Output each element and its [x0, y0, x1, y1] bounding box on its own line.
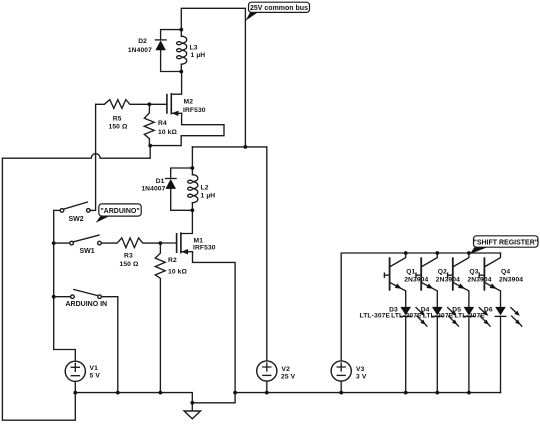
svg-text:R5: R5 — [113, 116, 122, 123]
junction R5/R4/M2 gate — [148, 102, 152, 106]
transistor Q1 2N3904 — [384, 253, 405, 307]
svg-text:2N3904: 2N3904 — [404, 276, 428, 283]
svg-text:IRF530: IRF530 — [193, 245, 216, 252]
svg-text:LTL-307E: LTL-307E — [423, 313, 454, 320]
svg-text:SW1: SW1 — [80, 248, 95, 255]
LED D4 LTL-307E — [432, 307, 459, 326]
wire V2 riser — [266, 147, 268, 361]
wire M2 drain from L3 bottom node — [171, 72, 181, 95]
wire D2 left branch bottom — [161, 50, 182, 71]
wire M1 drain from L2 bottom node — [181, 210, 193, 233]
wire D3 cathode to rail — [405, 316, 407, 392]
svg-text:R2: R2 — [168, 257, 177, 264]
wire R5 left down to SW2 — [90, 104, 96, 210]
junction D3 rail — [404, 391, 408, 395]
svg-text:150 Ω: 150 Ω — [120, 261, 139, 268]
wire ARDUINO IN to bottom rail — [117, 297, 119, 393]
resistor R5 150ohm — [96, 100, 150, 109]
junction V2 bottom — [265, 391, 269, 395]
svg-text:R3: R3 — [124, 253, 133, 260]
svg-text:Q1: Q1 — [406, 268, 415, 275]
inductor L3 1uH — [177, 30, 187, 72]
net label "SHIFT REGISTER" — [470, 236, 538, 254]
wire L2 top feed — [191, 147, 193, 168]
junction ground tap — [190, 401, 194, 405]
svg-text:1 µH: 1 µH — [201, 193, 216, 200]
svg-text:V3: V3 — [356, 366, 365, 373]
resistor R4 10k — [144, 104, 154, 145]
svg-text:2N3904: 2N3904 — [436, 276, 460, 283]
junction Q3 collector tap — [467, 251, 471, 255]
junction SW2/SW1 branch — [52, 241, 56, 245]
net label 25V common bus — [246, 2, 310, 21]
svg-text:ARDUINO IN: ARDUINO IN — [66, 301, 108, 308]
svg-text:10 kΩ: 10 kΩ — [158, 129, 177, 136]
svg-text:LTL-307E: LTL-307E — [360, 313, 391, 320]
svg-text:R4: R4 — [158, 120, 167, 127]
wire M2 gate — [149, 103, 167, 105]
wire V3 riser to shift-register rail — [341, 253, 500, 361]
junction M1 source rail — [233, 391, 237, 395]
svg-text:150 Ω: 150 Ω — [109, 124, 128, 131]
svg-text:Q4: Q4 — [501, 268, 510, 275]
wire bottom ground rail with jog — [75, 393, 500, 403]
wire D6 cathode to rail — [500, 316, 502, 392]
node L3-D2 top — [179, 28, 183, 32]
node L2-D1 top — [191, 166, 195, 170]
wire D5 cathode to rail — [468, 316, 470, 392]
junction D5 rail — [467, 391, 471, 395]
diode D1 1N4007 — [166, 179, 177, 189]
junction Q1 collector tap — [404, 251, 408, 255]
svg-text:1N4007: 1N4007 — [128, 47, 152, 54]
transistor Q3 2N3904 — [448, 253, 469, 307]
wire D4 cathode to rail — [436, 316, 438, 392]
svg-text:2N3904: 2N3904 — [499, 276, 523, 283]
wire M1 gate — [160, 242, 176, 244]
switch SW2 — [54, 202, 90, 212]
svg-text:1 µH: 1 µH — [191, 52, 206, 59]
ground — [184, 403, 200, 419]
resistor R3 150ohm — [101, 238, 160, 248]
diode D2 1N4007 — [155, 40, 166, 50]
svg-text:L3: L3 — [190, 45, 198, 52]
node L2-D1 bottom — [191, 208, 195, 212]
svg-text:D1: D1 — [156, 178, 165, 185]
LED D5 LTL-307E — [464, 307, 491, 326]
junction V3 bottom — [339, 391, 343, 395]
wire M1 source to bottom rail — [193, 252, 236, 393]
junction R4 bottom — [148, 144, 152, 148]
inductor L2 1uH — [188, 168, 198, 210]
wire 25V main row y=147 — [192, 146, 266, 148]
junction ARDUINO IN branch — [52, 295, 56, 299]
wire branch down to V1 — [54, 297, 76, 362]
voltage source V2 25V — [257, 361, 277, 393]
svg-text:L2: L2 — [201, 185, 209, 192]
wire SW2 to SW1 branch — [53, 210, 55, 296]
svg-text:V2: V2 — [282, 366, 291, 373]
voltage source V1 5V — [65, 361, 85, 392]
wire D2 left branch top — [161, 30, 182, 40]
transistor M1 IRF530 — [177, 233, 193, 254]
junction arduino-in rail — [116, 391, 120, 395]
switch ARDUINO IN — [54, 290, 118, 299]
LED D6 LTL-307E — [495, 307, 522, 326]
transistor Q4 2N3904 — [479, 253, 500, 307]
junction R3/R2/M1 gate — [159, 241, 163, 245]
svg-text:25 V: 25 V — [281, 374, 296, 381]
resistor R2 10k — [155, 243, 165, 393]
svg-text:M1: M1 — [194, 238, 204, 245]
svg-text:"SHIFT REGISTER": "SHIFT REGISTER" — [474, 240, 539, 247]
junction D4 rail — [435, 391, 439, 395]
wire M2 source routing (tongue) to R4 bottom — [150, 113, 224, 145]
LED D3 LTL-307E — [400, 307, 427, 326]
svg-text:LTL-307E: LTL-307E — [454, 313, 485, 320]
svg-text:10 kΩ: 10 kΩ — [168, 269, 187, 276]
transistor M2 IRF530 — [167, 94, 182, 116]
svg-text:M2: M2 — [184, 99, 194, 106]
svg-text:1N4007: 1N4007 — [141, 186, 165, 193]
switch SW1 — [54, 235, 101, 245]
svg-text:D6: D6 — [484, 306, 493, 313]
junction V1 bottom — [73, 391, 77, 395]
svg-text:Q2: Q2 — [438, 268, 447, 275]
voltage source V3 3V — [331, 361, 351, 393]
wire D1 left branch top — [171, 168, 193, 178]
junction R2 rail — [159, 391, 163, 395]
svg-text:IRF530: IRF530 — [183, 107, 206, 114]
wire 25V bus riser: L3 top node up, right, down to main row — [181, 8, 245, 147]
svg-text:SW2: SW2 — [69, 216, 84, 223]
svg-text:D2: D2 — [138, 38, 147, 45]
svg-text:V1: V1 — [90, 365, 99, 372]
svg-text:LTL-307E: LTL-307E — [391, 313, 422, 320]
svg-text:3 V: 3 V — [356, 374, 367, 381]
svg-text:Q3: Q3 — [469, 268, 478, 275]
node L3-D2 bottom — [179, 70, 183, 74]
transistor Q2 2N3904 — [416, 253, 437, 307]
svg-text:2N3904: 2N3904 — [467, 276, 491, 283]
svg-text:5 V: 5 V — [90, 373, 101, 380]
wire D1 left branch bottom — [171, 189, 193, 210]
svg-text:25V common bus: 25V common bus — [250, 5, 308, 12]
junction 25V bus/row — [244, 145, 248, 149]
junction Q2 collector tap — [435, 251, 439, 255]
net label "ARDUINO" — [96, 204, 142, 223]
svg-text:"ARDUINO": "ARDUINO" — [100, 208, 139, 215]
wire row y=158 with hop over SW2 riser — [2, 146, 150, 159]
wire left rail — [2, 158, 75, 420]
